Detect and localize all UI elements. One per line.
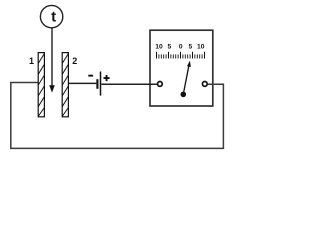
svg-text:5: 5 (168, 43, 172, 50)
svg-text:10: 10 (197, 43, 205, 50)
svg-text:t: t (51, 9, 56, 26)
svg-text:10: 10 (155, 43, 163, 50)
svg-text:1: 1 (29, 56, 34, 66)
svg-text:5: 5 (189, 43, 193, 50)
svg-text:0: 0 (179, 43, 183, 50)
svg-text:2: 2 (72, 56, 77, 66)
